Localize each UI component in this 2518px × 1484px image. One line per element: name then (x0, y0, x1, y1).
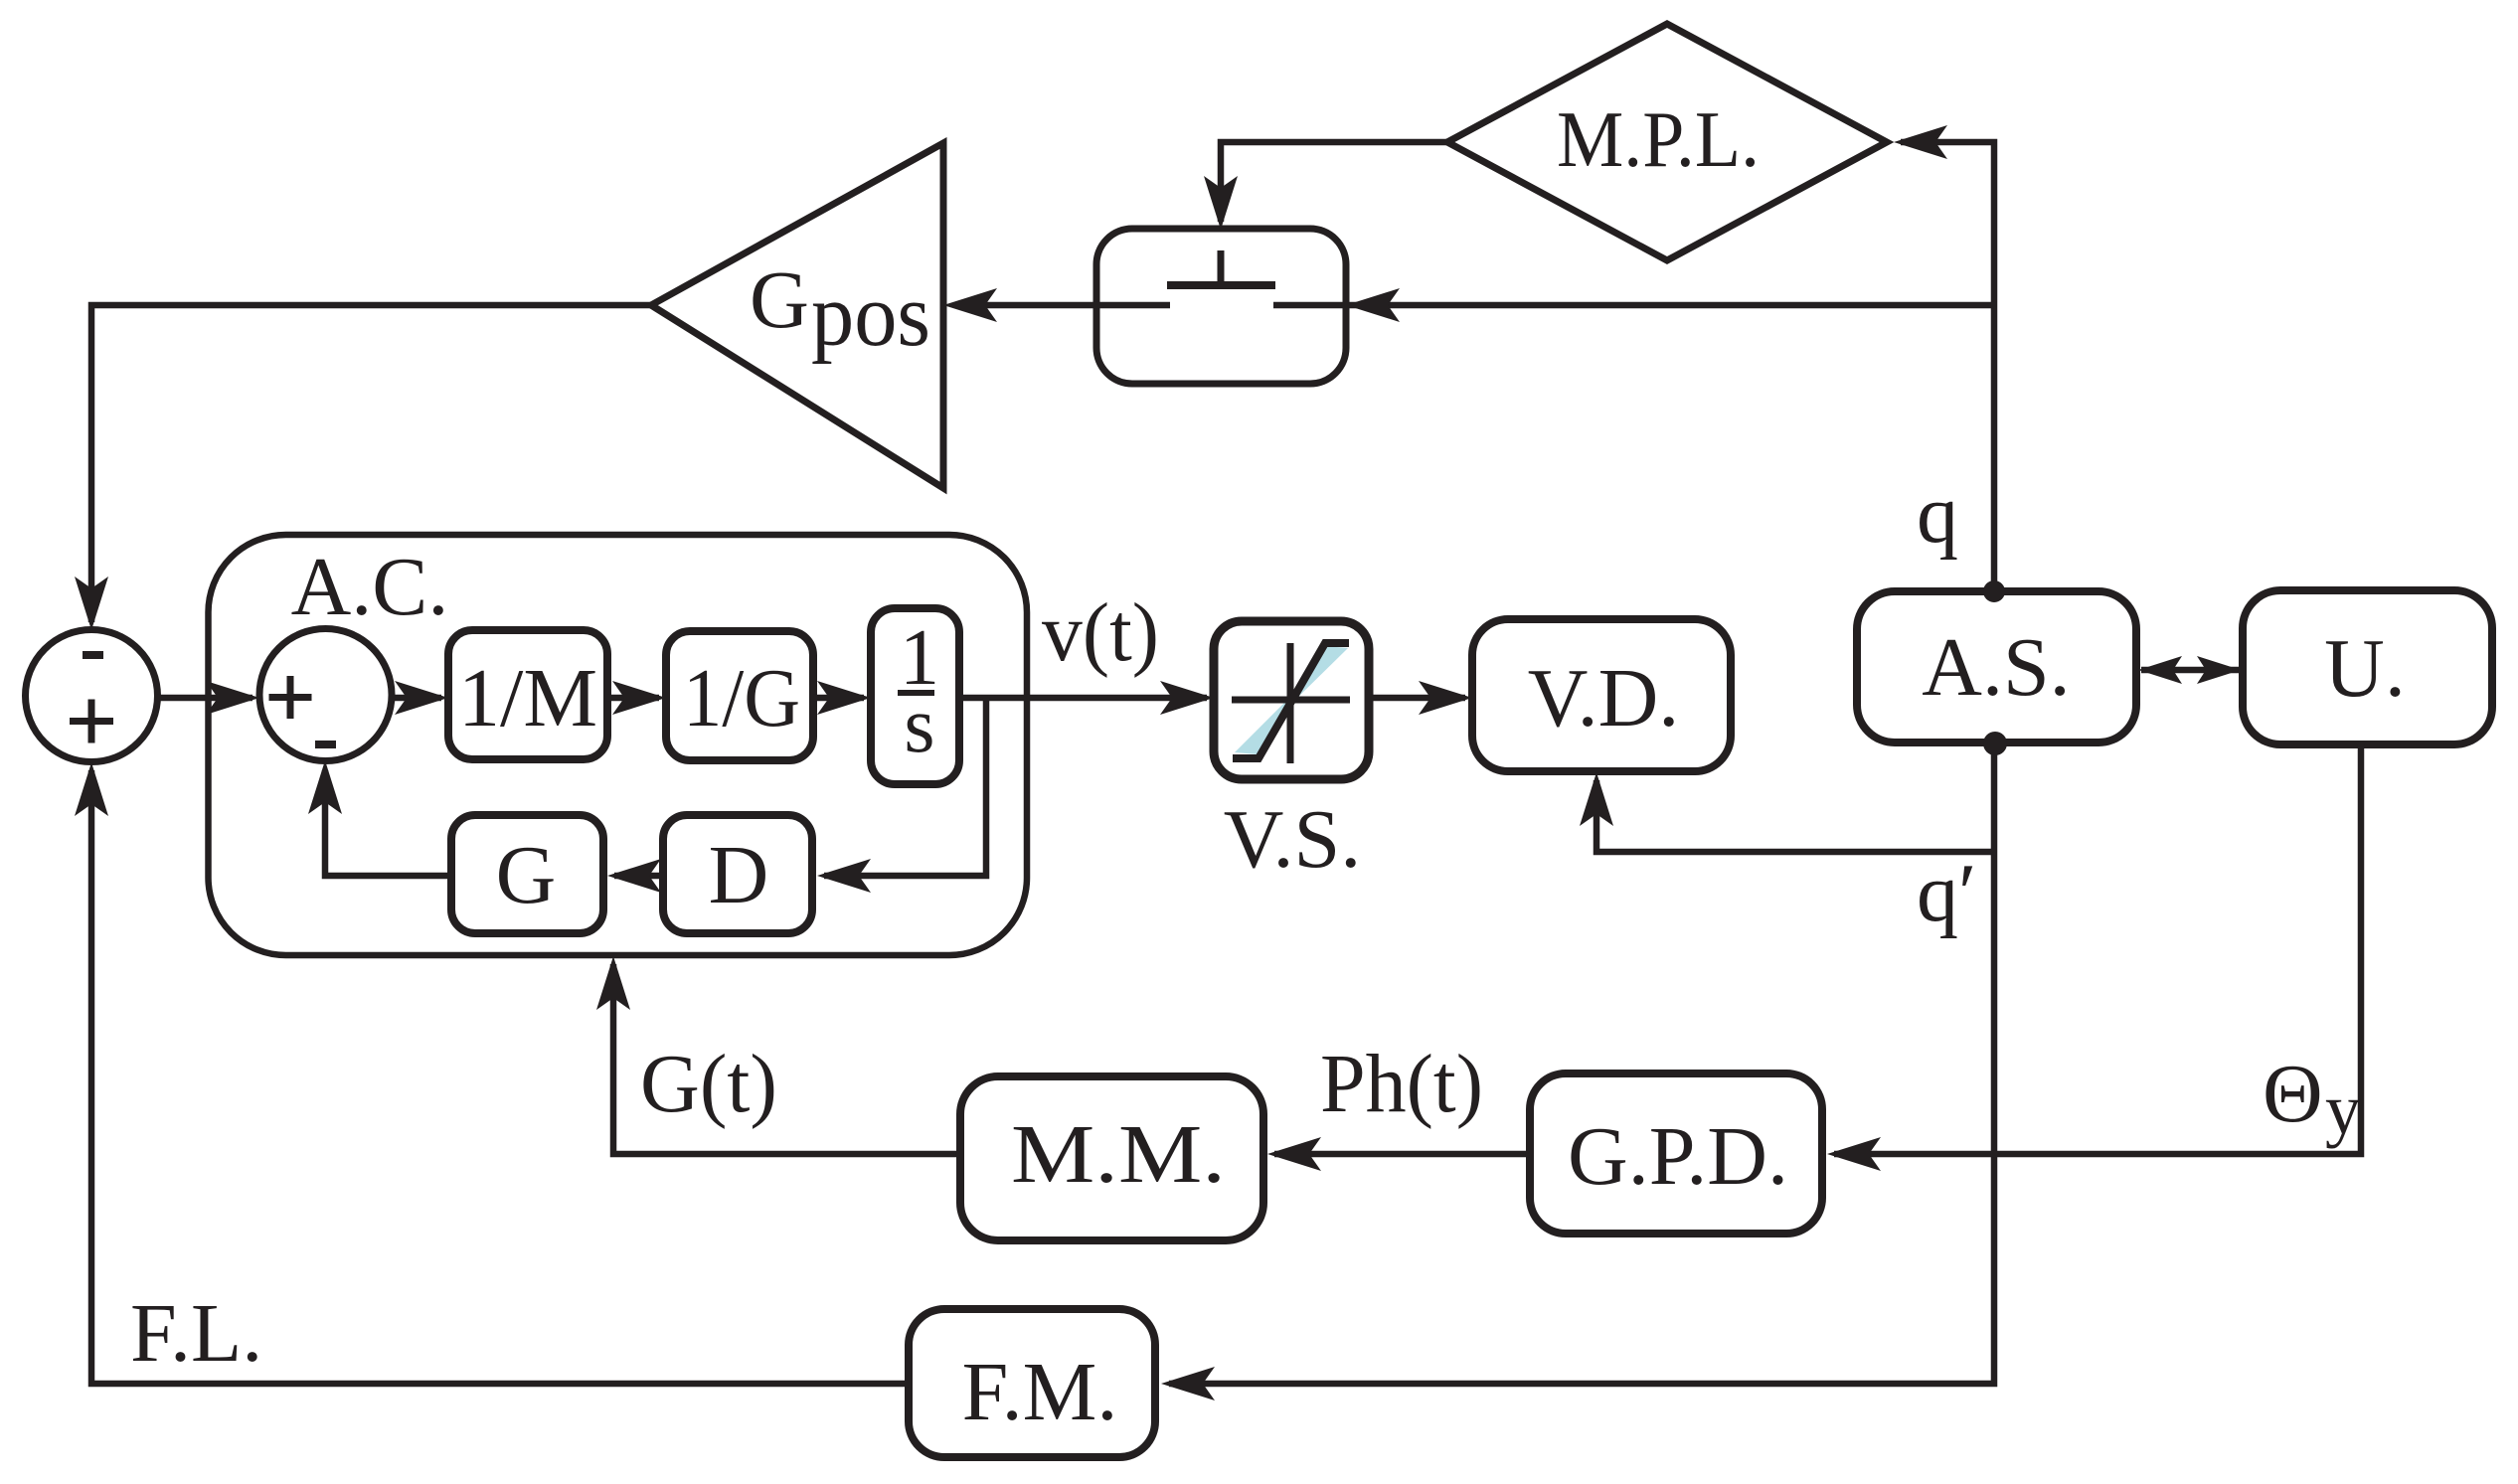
svg-text:V.S.: V.S. (1224, 793, 1362, 886)
summing junction S1 (26, 630, 158, 762)
wire: G left then up into S2 bottom (325, 770, 451, 876)
saturation cyan fill lower (1235, 698, 1289, 754)
svg-text:F.L.: F.L. (130, 1287, 262, 1380)
svg-text:M.P.L.: M.P.L. (1557, 96, 1760, 184)
wire: M.M. left then up into A.C. bottom (G(t)) (613, 964, 960, 1154)
svg-text:D: D (709, 829, 769, 921)
svg-text:1/M: 1/M (458, 652, 597, 744)
wire: V.S. to V.D. (1369, 695, 1465, 702)
V.S. horizontal axis (1232, 697, 1350, 704)
block D (663, 815, 812, 933)
svg-text:A.C.: A.C. (291, 541, 449, 633)
block V.D. (1472, 619, 1731, 771)
bidirectional wire A.S. and U. (2141, 667, 2239, 674)
svg-text:s: s (904, 682, 934, 769)
wire: 1/M to 1/G (607, 695, 659, 702)
fraction bar of integrator (898, 690, 934, 696)
svg-text:1/G: 1/G (683, 652, 800, 744)
wire: S1 to inner summer S2 (157, 695, 252, 702)
switch actuator stub (1218, 250, 1225, 285)
svg-text:F.M.: F.M. (962, 1346, 1118, 1438)
svg-text:y: y (2325, 1070, 2361, 1149)
wire: branch from q' line up into V.D. bottom (1596, 780, 1994, 852)
svg-text:G: G (750, 253, 809, 345)
wire: q' from A.S. bottom down then left into F.M. (1169, 742, 1994, 1384)
svg-text:M.M.: M.M. (1011, 1108, 1226, 1201)
A.C. container box (209, 535, 1028, 955)
V.S. vertical axis (1287, 643, 1294, 763)
svg-text:G: G (496, 829, 557, 921)
block G.P.D. (1530, 1073, 1822, 1234)
svg-text:G(t): G(t) (640, 1038, 777, 1130)
svg-text:G.P.D.: G.P.D. (1568, 1110, 1788, 1203)
wire: S2 to 1/M (392, 695, 441, 702)
svg-text:V.D.: V.D. (1528, 652, 1680, 744)
wire: G.P.D. to M.M. (Ph(t)) (1274, 1151, 1530, 1158)
wire: feedback junction down to D row (824, 698, 986, 876)
node q junction dot on A.S. top (1983, 580, 2005, 602)
wire: branch from q line to switch right contact (1273, 302, 1994, 309)
summing junction S2 (259, 629, 392, 761)
plus sign of S1 (70, 700, 113, 743)
block 1/M (448, 630, 607, 759)
block V.S. saturation (1214, 621, 1369, 779)
svg-text:pos: pos (811, 266, 930, 365)
block U. (2243, 590, 2492, 744)
block 1/G (666, 631, 813, 760)
svg-text:v(t): v(t) (1042, 586, 1159, 679)
wire: U. bottom down then left into G.P.D. (1834, 744, 2361, 1154)
block M.M. (960, 1076, 1263, 1240)
node q' junction dot on A.S. bottom (1983, 732, 2007, 755)
block 1/s integrator (871, 608, 959, 784)
wire: 1/s output to V.S. with junction (959, 695, 1207, 702)
wire: M.P.L. left vertex to switch top (1221, 142, 1447, 222)
svg-text:A.S.: A.S. (1922, 621, 2070, 714)
plus sign of S2 (269, 676, 312, 719)
svg-text:q′: q′ (1917, 847, 1976, 939)
amplifier Gpos triangle (651, 143, 943, 488)
wire: q line from A.S. top up then left into M.P.L. (1901, 142, 1994, 591)
switch block box (1096, 229, 1346, 384)
block A.S. (1857, 591, 2136, 742)
block F.M. (909, 1309, 1155, 1457)
V.S. saturation curve (1233, 643, 1349, 758)
svg-text:q: q (1917, 468, 1958, 561)
minus sign of S2 (315, 741, 336, 748)
svg-text:Ph(t): Ph(t) (1320, 1038, 1483, 1130)
wire: Gpos output to left edge then down into summer S1 top (91, 305, 651, 622)
saturation cyan fill upper (1293, 646, 1348, 702)
switch actuator bar (1167, 281, 1275, 289)
wire: D to G (614, 873, 663, 880)
switch left contact wire to Gpos input (955, 302, 1170, 309)
arrowhead into S2 left (206, 681, 259, 715)
block G (451, 815, 603, 933)
wire: 1/G to 1/s (813, 695, 864, 702)
arrowhead into S1 top (75, 577, 108, 630)
svg-text:U.: U. (2324, 622, 2406, 715)
diamond M.P.L. (1447, 24, 1887, 260)
svg-text:Θ: Θ (2263, 1048, 2323, 1140)
wire: F.M. left then up into S1 bottom (F.L.) (91, 770, 909, 1384)
minus sign of S1 (83, 651, 103, 659)
